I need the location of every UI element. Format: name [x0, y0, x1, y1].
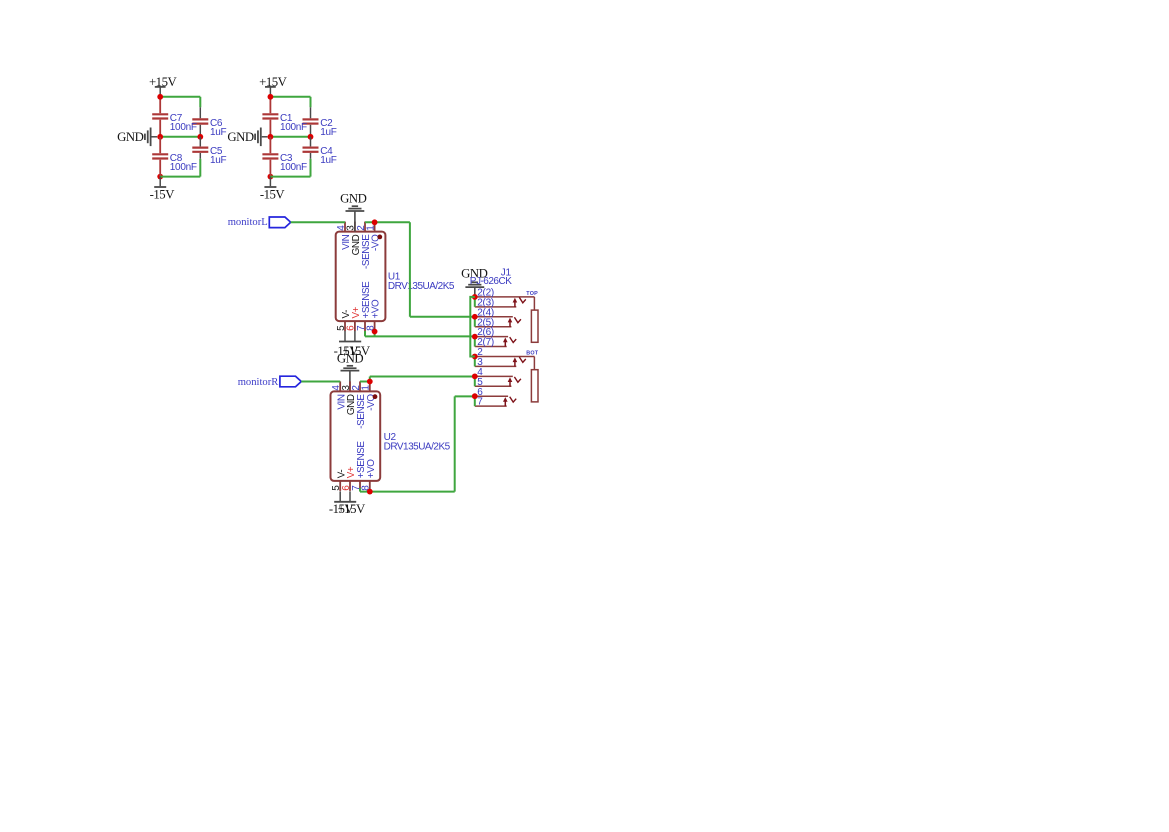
svg-text:1uF: 1uF — [210, 127, 227, 138]
svg-text:100nF: 100nF — [280, 162, 307, 173]
svg-text:monitorL: monitorL — [228, 217, 268, 228]
svg-text:GND: GND — [227, 130, 253, 144]
svg-text:100nF: 100nF — [280, 122, 307, 133]
svg-text:+15V: +15V — [337, 502, 366, 516]
svg-text:1: 1 — [365, 225, 376, 231]
svg-text:monitorR: monitorR — [238, 377, 280, 388]
svg-text:+VO: +VO — [371, 299, 382, 319]
svg-text:100nF: 100nF — [170, 122, 197, 133]
svg-text:DRV135UA/2K5: DRV135UA/2K5 — [388, 281, 455, 292]
svg-text:7: 7 — [477, 397, 483, 408]
svg-text:BOT: BOT — [526, 351, 538, 357]
svg-text:100nF: 100nF — [170, 162, 197, 173]
svg-text:GND: GND — [117, 130, 143, 144]
svg-text:-15V: -15V — [150, 188, 176, 202]
svg-text:GND: GND — [337, 352, 363, 366]
svg-text:GND: GND — [340, 192, 366, 206]
svg-text:1uF: 1uF — [320, 127, 337, 138]
svg-text:PJ-626CK: PJ-626CK — [470, 276, 512, 287]
svg-text:1uF: 1uF — [320, 155, 337, 166]
svg-text:DRV135UA/2K5: DRV135UA/2K5 — [384, 441, 451, 452]
svg-text:TOP: TOP — [526, 291, 538, 297]
svg-text:1uF: 1uF — [210, 155, 227, 166]
svg-text:1: 1 — [361, 385, 372, 391]
svg-text:+VO: +VO — [366, 459, 377, 479]
svg-text:-15V: -15V — [260, 188, 286, 202]
